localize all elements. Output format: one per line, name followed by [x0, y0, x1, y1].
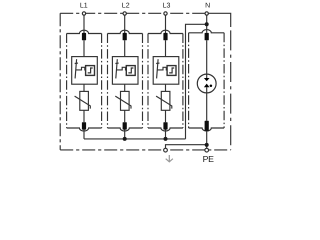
- terminal N-PE bottom: [205, 121, 209, 131]
- busbar PE (bus B): [166, 145, 207, 149]
- wire bus A up to N node: [186, 24, 207, 139]
- node bus B / PE: [205, 143, 209, 147]
- node N junction: [205, 22, 209, 26]
- wire L3 vertical: [165, 15, 167, 139]
- terminal ground: [164, 148, 168, 152]
- module box L2 (dashed): [108, 30, 143, 131]
- terminal L2: [123, 12, 126, 15]
- wire N vertical: [206, 15, 208, 148]
- terminal L2 top: [123, 33, 127, 40]
- terminal N: [205, 12, 208, 15]
- node bus A / L3: [164, 137, 168, 141]
- module box L3 (dashed): [148, 30, 183, 131]
- terminal L1 bottom: [82, 122, 86, 129]
- N-PE spark gap circle: [197, 74, 216, 93]
- enclosure border top (dash-dot): [60, 12, 207, 14]
- N-PE spark gap arrows: [204, 78, 212, 87]
- busbar varistor common (bus A): [84, 138, 186, 140]
- varistor L3: [156, 91, 172, 110]
- terminal L2 bottom: [123, 122, 127, 129]
- module box L1 (dashed): [67, 30, 102, 131]
- varistor L1: [75, 91, 91, 110]
- terminal PE: [205, 148, 209, 152]
- junction dots: [123, 22, 209, 147]
- enclosure border bottom (dash-dot): [60, 149, 231, 151]
- ground arrow symbol: [166, 155, 173, 162]
- svg-text:PE: PE: [203, 154, 214, 164]
- terminal L1: [82, 12, 85, 15]
- terminal circles: [82, 12, 208, 152]
- enclosure border right (dash-dot): [230, 30, 232, 149]
- varistor L2: [115, 91, 131, 110]
- svg-text:L2: L2: [122, 2, 130, 9]
- terminal N top: [205, 33, 209, 40]
- svg-text:N: N: [205, 2, 210, 9]
- spark gap unit L3: [153, 57, 179, 85]
- spark gap unit L2: [112, 57, 138, 85]
- module box N-PE (dashed): [189, 30, 225, 131]
- wire L2 vertical: [124, 15, 126, 139]
- wire L1 vertical: [83, 15, 85, 139]
- spark gap unit L1: [72, 57, 98, 85]
- enclosure border left (dash-dot): [59, 13, 61, 150]
- terminal L3 bottom: [163, 122, 167, 129]
- terminal L1 top: [82, 33, 86, 40]
- terminal L3: [164, 12, 167, 15]
- svg-text:L1: L1: [80, 2, 88, 9]
- terminal L3 top: [163, 33, 167, 40]
- svg-text:L3: L3: [163, 2, 171, 9]
- terminal blocks (black): [82, 33, 209, 131]
- wire N to top-right corner (solid border piece): [208, 13, 231, 27]
- node bus A / L2: [123, 137, 127, 141]
